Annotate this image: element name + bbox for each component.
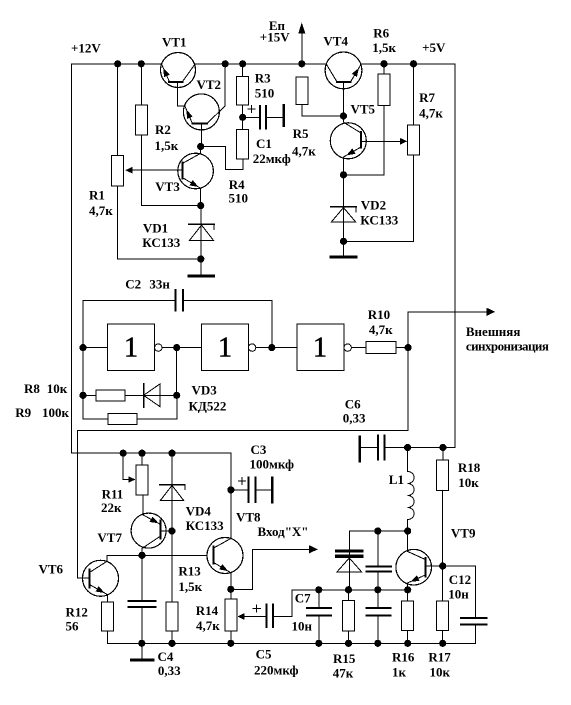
node junction rail R16 [404, 640, 411, 647]
diode VD3 [143, 384, 145, 408]
svg-text:33н: 33н [149, 277, 170, 292]
svg-text:КС133: КС133 [186, 518, 224, 533]
capacitor C3 polarized [241, 477, 243, 484]
node junction gate2 out [268, 344, 275, 351]
svg-text:10к: 10к [458, 475, 479, 490]
capacitor lower unlabeled [377, 590, 379, 608]
wire Vhod X arrow [231, 588, 253, 590]
diode VD1 zener [189, 223, 214, 225]
wire left edge vertical [71, 64, 73, 453]
svg-text:VT7: VT7 [97, 530, 122, 545]
resistor R12 [101, 602, 113, 631]
resistor R17 [437, 601, 449, 630]
svg-text:R17: R17 [428, 650, 451, 665]
node junction rail R2 [138, 60, 145, 67]
wire VT5 emitter to R6 [344, 174, 385, 176]
svg-text:4,7к: 4,7к [89, 203, 113, 218]
svg-text:КД522: КД522 [189, 399, 227, 414]
resistor R14 potentiometer [230, 589, 232, 599]
node junction rail cap column [374, 640, 381, 647]
svg-text:Внешняя: Внешняя [466, 324, 520, 339]
node junction rail R13 [168, 640, 175, 647]
transistor VT6 [83, 560, 119, 596]
svg-text:100к: 100к [42, 405, 70, 420]
transistor VT8 [230, 490, 232, 539]
svg-text:10к: 10к [47, 381, 68, 396]
logic gate DD1.1 [107, 324, 154, 371]
svg-text:510: 510 [255, 85, 274, 100]
wire R1 bottom [117, 186, 119, 259]
wire gates left vertical [82, 301, 84, 419]
svg-text:VT1: VT1 [162, 35, 187, 50]
svg-text:R18: R18 [458, 460, 481, 475]
node junction rail R17 [439, 640, 446, 647]
node junction VT7 collector [138, 552, 145, 559]
svg-text:22мкф: 22мкф [253, 151, 291, 166]
svg-text:+15V: +15V [260, 30, 290, 45]
transistor VT9 [407, 531, 409, 552]
wire varactor rail [292, 589, 408, 591]
node junction C7 top [315, 586, 322, 593]
transistor VT1 [161, 53, 196, 88]
wire VT5 base to R7 [361, 140, 401, 142]
svg-text:VT2: VT2 [197, 77, 222, 92]
svg-text:R9: R9 [15, 405, 31, 420]
wire rail right [361, 63, 456, 65]
capacitor C4 [141, 555, 143, 601]
power +15V arrow [301, 31, 303, 64]
svg-text:1,5к: 1,5к [155, 138, 179, 153]
svg-text:C2: C2 [125, 277, 141, 292]
svg-text:47к: 47к [333, 665, 354, 680]
wire bottom rail [107, 642, 475, 644]
svg-text:VT8: VT8 [236, 510, 261, 525]
svg-text:L1: L1 [389, 472, 404, 487]
transistor VT4 [325, 52, 362, 89]
capacitor C1 polarized [250, 106, 252, 113]
resistor R13 [166, 602, 178, 631]
wire rail middle [194, 63, 326, 65]
node junction lineB VD4 [168, 450, 175, 457]
svg-text:22к: 22к [101, 500, 122, 515]
wire R3 to R4 [242, 105, 244, 130]
node junction lineB R11 wiper [120, 450, 127, 457]
svg-text:4,7к: 4,7к [292, 144, 316, 159]
capacitor C7 [318, 590, 320, 608]
svg-text:R15: R15 [333, 651, 356, 666]
resistor R18 [442, 448, 444, 461]
wire rail to R1 [117, 64, 119, 156]
svg-text:C4: C4 [158, 649, 174, 664]
svg-text:R16: R16 [392, 650, 415, 665]
transistor VT3 [178, 153, 214, 189]
node junction VT8 emitter [227, 586, 234, 593]
resistor R5 [296, 77, 308, 105]
resistor R6 [378, 74, 390, 106]
wire +12V rail left [72, 63, 162, 65]
svg-text:C1: C1 [256, 136, 272, 151]
wire to gate1 [83, 347, 107, 349]
node junction VD2-ground [340, 238, 347, 245]
node junction rail +15V [298, 60, 305, 67]
node junction lineB C3 VT8 [227, 486, 234, 493]
resistor R4 [237, 130, 249, 159]
svg-text:1,5к: 1,5к [372, 40, 396, 55]
svg-text:1к: 1к [392, 664, 407, 679]
node junction rail R15 [345, 640, 352, 647]
resistor R10 [366, 342, 396, 354]
capacitor C6 [359, 437, 362, 462]
capacitor C12 [443, 565, 476, 567]
svg-text:VD3: VD3 [192, 383, 218, 398]
svg-text:Вход"Х": Вход"Х" [258, 524, 309, 539]
svg-text:VT3: VT3 [155, 179, 180, 194]
node junction rail R6 [380, 60, 387, 67]
transistor VT2 [183, 94, 219, 130]
node junction VT3 emitter [197, 202, 204, 209]
node junction cap column top [374, 527, 381, 534]
svg-text:0,33: 0,33 [343, 411, 366, 426]
resistor R9 [83, 418, 108, 420]
node junction VT9 base [439, 562, 446, 569]
capacitor C5 polarized [256, 605, 258, 612]
svg-text:VD2: VD2 [361, 198, 386, 213]
svg-text:10н: 10н [292, 619, 313, 634]
node junction VD1-ground [197, 255, 204, 262]
svg-text:R14: R14 [196, 603, 219, 618]
node junction L1 bottom [404, 527, 411, 534]
wire gate2 out [256, 347, 297, 349]
resistor R7 potentiometer [413, 64, 415, 125]
svg-text:220мкф: 220мкф [254, 662, 299, 677]
svg-text:1,5к: 1,5к [178, 579, 202, 594]
svg-text:R5: R5 [293, 126, 309, 141]
wire base bus VT6 VT7 VT8 [107, 554, 207, 556]
wire gate3 out [351, 347, 366, 349]
svg-text:10к: 10к [430, 664, 451, 679]
node junction varactor R15 [345, 586, 352, 593]
logic gate DD1.2 [202, 324, 249, 371]
svg-text:VT5: VT5 [351, 102, 376, 117]
svg-text:VT6: VT6 [39, 562, 64, 577]
capacitor C2 [83, 300, 176, 302]
wire rail to R3 [242, 64, 244, 77]
wire right edge vertical [454, 64, 456, 448]
svg-text:R2: R2 [155, 122, 171, 137]
svg-text:510: 510 [229, 191, 249, 206]
node junction gate1 out [173, 344, 180, 351]
svg-text:R8: R8 [24, 381, 40, 396]
diode VD4 zener [171, 453, 173, 485]
svg-text:56: 56 [66, 619, 80, 634]
resistor R3 [237, 77, 249, 105]
svg-text:R1: R1 [89, 188, 105, 203]
resistor R8 [83, 394, 96, 396]
svg-text:R10: R10 [368, 307, 390, 322]
ground below VD2 [343, 241, 345, 256]
wire gate1 out to VD3 [176, 348, 178, 396]
node junction rail R14 [227, 640, 234, 647]
wire VT3 collector to R4 [201, 146, 226, 148]
node junction rail R7 [410, 60, 417, 67]
svg-text:R12: R12 [66, 605, 88, 620]
wire rail to R2 [140, 64, 142, 105]
node junction VT9 emitter R16 [404, 586, 411, 593]
node junction rail VT2 collector [222, 60, 229, 67]
svg-text:C7: C7 [295, 591, 311, 606]
svg-text:C6: C6 [345, 397, 361, 412]
varactor diode [348, 531, 350, 590]
svg-text:100мкф: 100мкф [250, 456, 295, 471]
svg-text:R6: R6 [373, 26, 389, 41]
resistor R15 [348, 590, 350, 601]
wire varactor top row [349, 530, 407, 532]
svg-text:1: 1 [218, 333, 232, 364]
wire R7 bottom [413, 155, 415, 241]
node junction C6 L1 [404, 444, 411, 451]
svg-text:VD4: VD4 [186, 504, 212, 519]
node junction R8 left [79, 392, 86, 399]
svg-text:C3: C3 [251, 442, 267, 457]
svg-text:R3: R3 [255, 70, 271, 85]
node junction VT4 base [340, 112, 347, 119]
svg-text:R7: R7 [419, 90, 435, 105]
ground below VD1 [200, 259, 202, 275]
svg-text:VD1: VD1 [143, 221, 168, 236]
svg-text:4,7к: 4,7к [196, 618, 220, 633]
svg-text:+5V: +5V [422, 40, 446, 55]
ground bottom [141, 643, 143, 659]
svg-text:R13: R13 [178, 564, 201, 579]
node junction cap column mid [374, 586, 381, 593]
wire to VD1 [200, 206, 202, 225]
transistor VT7 [131, 513, 166, 548]
svg-text:КС133: КС133 [360, 213, 398, 228]
node junction rail R1 [114, 60, 121, 67]
wire gate1 out [162, 347, 202, 349]
node junction C1 tap [239, 114, 246, 121]
svg-text:1: 1 [313, 333, 327, 364]
logic gate DD1.3 [297, 324, 344, 371]
transistor VT5 [330, 123, 366, 159]
resistor R1 potentiometer [112, 155, 124, 186]
resistor R11 potentiometer [122, 453, 124, 479]
wire line B supply [72, 452, 231, 454]
svg-text:C5: C5 [256, 647, 272, 662]
node junction rail R3 [239, 60, 246, 67]
node junction C6 R18 [439, 444, 446, 451]
svg-text:VT4: VT4 [323, 34, 348, 49]
svg-text:синхронизация: синхронизация [466, 339, 549, 354]
diode VD2 zener [343, 175, 345, 207]
svg-text:0,33: 0,33 [158, 663, 181, 678]
svg-text:+12V: +12V [71, 41, 101, 56]
wire R2 bottom [140, 135, 142, 206]
node junction rail C7 [315, 640, 322, 647]
resistor R16 [407, 590, 409, 601]
node junction VT5 emitter [340, 171, 347, 178]
svg-text:4,7к: 4,7к [369, 322, 393, 337]
node junction rail ground [138, 640, 145, 647]
svg-text:10н: 10н [448, 587, 469, 602]
node junction R10 out [405, 344, 412, 351]
wire sync output arrow [407, 312, 409, 348]
wire feedback horizontal [407, 348, 409, 431]
node junction gate1 input [79, 344, 86, 351]
node junction VT2-VT3 [197, 143, 204, 150]
inductor L1 [407, 448, 409, 472]
capacitor upper unlabeled [377, 531, 379, 566]
node junction VD3 right [173, 392, 180, 399]
node junction VT7 base VD4 [168, 527, 175, 534]
svg-text:C12: C12 [449, 572, 471, 587]
svg-text:1: 1 [124, 333, 138, 364]
svg-text:4,7к: 4,7к [419, 106, 443, 121]
resistor R2 [135, 105, 147, 135]
svg-text:VT9: VT9 [451, 525, 476, 540]
svg-text:КС133: КС133 [142, 235, 180, 250]
node junction lineB R11 top [138, 450, 145, 457]
